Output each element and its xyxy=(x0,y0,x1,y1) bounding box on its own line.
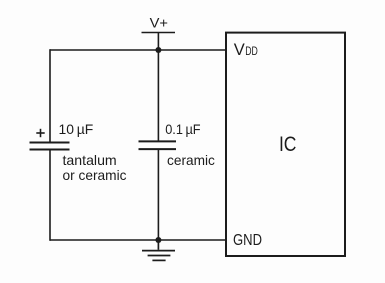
svg-text:IC: IC xyxy=(279,132,297,156)
node: junction of bottom rail and ground xyxy=(155,237,161,243)
capacitor C1 (10 uF tantalum) plates xyxy=(30,143,70,150)
svg-text:V+: V+ xyxy=(150,14,168,30)
svg-text:or ceramic: or ceramic xyxy=(63,167,127,183)
V+ supply symbol (bar and stub) xyxy=(142,33,176,51)
wire: middle branch lower segment (C2 bottom lead) xyxy=(157,150,159,240)
svg-text:10 µF: 10 µF xyxy=(59,121,94,137)
svg-text:0.1 µF: 0.1 µF xyxy=(165,121,200,137)
IC U1 body xyxy=(226,33,345,256)
svg-text:tantalum: tantalum xyxy=(63,152,117,168)
ground symbol xyxy=(142,240,175,260)
wire: left branch upper segment (C1 top lead) xyxy=(49,49,51,141)
pin label VDD xyxy=(234,41,258,59)
svg-text:GND: GND xyxy=(233,232,262,249)
wire: top rail from left branch to VDD pin xyxy=(50,49,226,51)
svg-text:V: V xyxy=(234,41,245,59)
svg-text:ceramic: ceramic xyxy=(167,152,215,168)
capacitor C2 (0.1 uF ceramic) plates xyxy=(139,141,177,149)
wire: middle branch upper segment (C2 top lead) xyxy=(157,50,159,141)
polarity mark + for C1 xyxy=(36,129,44,137)
node: junction of V+ rail and C2 xyxy=(155,47,161,53)
wire: bottom rail from left branch to GND pin xyxy=(50,239,226,241)
svg-text:DD: DD xyxy=(245,44,258,58)
wire: left branch lower segment (C1 bottom lead) xyxy=(49,150,51,240)
